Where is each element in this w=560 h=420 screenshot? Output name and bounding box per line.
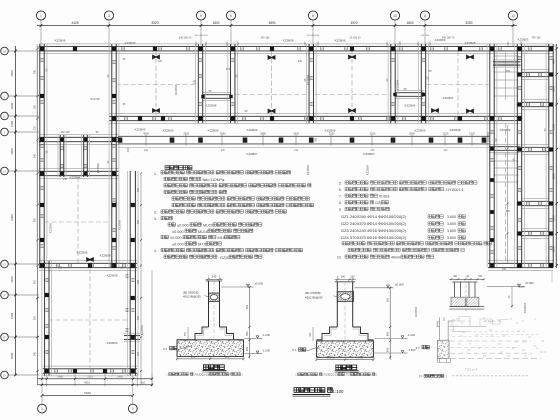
svg-text:GZ2 240X370 6Φ14 Φ6Φ100/200(2): GZ2 240X370 6Φ14 Φ6Φ100/200(2) <box>341 221 407 226</box>
svg-text:4Φ12 Φ6@200: 4Φ12 Φ6@200 <box>305 295 323 299</box>
svg-text:4500: 4500 <box>10 70 14 77</box>
svg-text:240: 240 <box>294 149 299 152</box>
detail C faint extension rows <box>452 325 486 327</box>
svg-text:4425: 4425 <box>71 21 78 25</box>
svg-text:E: E <box>3 335 5 339</box>
axis circle left 8 <box>1 333 9 341</box>
axis circle top 5 <box>308 11 317 20</box>
svg-text:KZ2B03: KZ2B03 <box>518 38 529 42</box>
lower-left total dim line <box>42 395 133 397</box>
detail D footing cells <box>451 297 465 306</box>
svg-text:300: 300 <box>126 147 130 152</box>
svg-text:5: 5 <box>200 14 202 18</box>
axis circle left 3 <box>1 112 9 120</box>
svg-text:240: 240 <box>144 149 149 152</box>
svg-text:8.: 8. <box>339 201 342 205</box>
svg-text:GZ20: GZ20 <box>220 256 230 260</box>
tie beam intermediate ticks <box>145 135 147 146</box>
svg-text:300: 300 <box>137 187 140 192</box>
axis circle top 8 <box>508 11 517 20</box>
detail A stepped footing outline <box>177 327 244 340</box>
svg-text:1460: 1460 <box>57 376 63 379</box>
detail D centerline <box>465 276 467 312</box>
svg-text:KZ2B08: KZ2B08 <box>55 39 66 43</box>
detail A caption <box>204 365 225 370</box>
svg-text:4200: 4200 <box>10 312 14 319</box>
GZ mark lower-left wall <box>86 257 94 262</box>
svg-text:875: 875 <box>225 355 230 359</box>
svg-text:2000: 2000 <box>10 102 14 109</box>
staircase treads lower flight <box>494 153 519 155</box>
detail B ring beam DQL section <box>337 292 353 302</box>
left wing partition wall A <box>39 134 118 136</box>
axis circle left 2 <box>1 92 9 100</box>
column blocks on left wing walls <box>40 94 44 98</box>
svg-text:KZ2B09: KZ2B09 <box>325 129 336 133</box>
right wing zero level line <box>487 286 525 288</box>
svg-text:40mm: 40mm <box>391 256 401 260</box>
axis circle top 2 <box>104 11 113 20</box>
svg-text:KZ2B01: KZ2B01 <box>443 96 454 100</box>
svg-text:): ) <box>376 373 377 377</box>
detail B zero level line and mark <box>355 287 389 289</box>
right cells partition y104 <box>522 99 550 101</box>
detail C lower steps <box>437 358 450 362</box>
svg-text:3.600: 3.600 <box>447 236 456 240</box>
detail B wall top break line <box>335 281 355 283</box>
svg-text:3.600: 3.600 <box>447 229 456 233</box>
centerline bay4 vertical <box>457 51 459 116</box>
svg-text:KZ2B06: KZ2B06 <box>49 223 53 234</box>
detail A elevation -1.500 <box>245 353 258 355</box>
svg-text:KZ2B09: KZ2B09 <box>247 128 258 132</box>
notes right item 9 cont line <box>342 242 491 245</box>
svg-text:K: K <box>3 114 5 118</box>
notes title: foundation design notes <box>165 166 192 170</box>
svg-text:500: 500 <box>506 210 511 213</box>
svg-text:±0.000: ±0.000 <box>172 230 184 234</box>
svg-text:F: F <box>4 293 6 297</box>
notes left item 1 line5 <box>172 197 310 200</box>
top dimension line <box>37 25 517 27</box>
north exterior strip footing wall <box>39 43 553 45</box>
axis circle left 6 <box>1 260 9 268</box>
svg-text:3.600: 3.600 <box>447 222 456 226</box>
svg-text:GZ4 370X370 6Φ16 Φ6Φ100/200(2): GZ4 370X370 6Φ16 Φ6Φ100/200(2) <box>341 235 407 240</box>
svg-text:1: 1 <box>41 407 43 411</box>
detail C faint upper outline <box>452 317 470 327</box>
top wing south wall <box>109 113 522 115</box>
svg-text:4 1: 4 1 <box>522 340 526 344</box>
detail B top dim <box>335 279 357 281</box>
axis circle left 1 <box>1 47 9 55</box>
detail B right dim line <box>389 288 391 360</box>
GZ mark bay2 bottom <box>268 108 276 113</box>
svg-text:KZ2B08: KZ2B08 <box>208 129 219 133</box>
svg-text:3560: 3560 <box>220 132 226 136</box>
svg-text:3260: 3260 <box>370 132 376 136</box>
svg-text:240 1800 240: 240 1800 240 <box>194 35 208 37</box>
svg-text:JY192Q1-150: JY192Q1-150 <box>194 372 211 376</box>
svg-text:240: 240 <box>444 149 449 152</box>
right wing west wall <box>486 44 488 268</box>
axis circle left 4 <box>1 128 9 136</box>
lower-left block south wall <box>43 365 137 367</box>
detail A top dim <box>206 278 223 280</box>
svg-text:): ) <box>242 372 243 376</box>
svg-text:JBL 240X180: JBL 240X180 <box>183 290 199 294</box>
svg-text:9300: 9300 <box>10 214 14 221</box>
svg-text:390: 390 <box>315 137 318 142</box>
svg-text:8: 8 <box>312 14 314 18</box>
svg-text:240: 240 <box>298 60 303 63</box>
svg-text:240: 240 <box>58 267 63 270</box>
svg-text:3.: 3. <box>154 217 157 221</box>
detail D wall lines <box>454 282 456 297</box>
lower-left block west wall <box>41 261 43 376</box>
svg-text:KZ2B09: KZ2B09 <box>163 129 174 133</box>
svg-text:±0.000: ±0.000 <box>525 281 534 285</box>
svg-text:240: 240 <box>341 275 346 278</box>
column blocks small partitions <box>201 95 204 98</box>
corridor partition <box>489 144 521 146</box>
svg-text:1:100: 1:100 <box>333 389 345 394</box>
top wing partition x393 <box>387 44 389 123</box>
corridor stair partition <box>493 59 521 61</box>
axis circle left 9 <box>1 371 9 379</box>
svg-text:H: H <box>3 169 5 173</box>
svg-text:500: 500 <box>506 70 511 73</box>
detail C wall and steps <box>437 318 452 341</box>
svg-text:2400: 2400 <box>293 132 299 136</box>
svg-text:240: 240 <box>63 178 68 181</box>
svg-text:4920: 4920 <box>350 21 357 25</box>
svg-text:-1.500: -1.500 <box>262 348 270 352</box>
svg-text:J1YG001-1.: J1YG001-1. <box>445 188 464 192</box>
svg-text:910: 910 <box>141 382 146 385</box>
lower-left dim extension lines <box>41 374 43 387</box>
svg-text:240 180 70: 240 180 70 <box>442 37 455 40</box>
detail A footing base with rubble fill <box>177 340 244 357</box>
left wing / lower block junction wall <box>39 260 137 262</box>
svg-text:278: 278 <box>194 79 197 84</box>
svg-text:(: ( <box>167 372 168 376</box>
svg-text:4310: 4310 <box>84 381 90 385</box>
axis circle left 7 <box>1 291 9 299</box>
east exterior wall <box>545 44 547 268</box>
centerline bay2 vertical <box>271 51 273 116</box>
svg-text:2401800240: 2401800240 <box>307 35 320 37</box>
svg-text:5940: 5940 <box>84 391 91 395</box>
detail A wall top break line <box>206 280 222 282</box>
svg-text:±0.000: ±0.000 <box>170 236 182 240</box>
svg-text:JY192Q1-150: JY192Q1-150 <box>323 373 340 377</box>
centerline lower-left room <box>48 319 131 321</box>
svg-text:390: 390 <box>137 315 140 320</box>
detail B footing base with rubble fill <box>317 341 374 357</box>
svg-text:+0 1a P — S: +0 1a P — S <box>483 319 500 323</box>
svg-text:340: 340 <box>33 153 36 158</box>
svg-text:120: 120 <box>158 60 163 63</box>
svg-text:1: 1 <box>40 14 42 18</box>
detail C extra faint rows <box>452 331 528 333</box>
svg-text:KZ2B08: KZ2B08 <box>100 254 111 258</box>
svg-text:800: 800 <box>245 331 249 336</box>
svg-text:KZ2B09: KZ2B09 <box>107 274 118 278</box>
svg-text:300: 300 <box>33 279 36 284</box>
right wing small dim drop <box>511 287 513 309</box>
svg-text:KZ2B04: KZ2B04 <box>396 80 400 91</box>
GZ mark bay4a bottom <box>431 108 439 113</box>
svg-text:1.: 1. <box>154 172 157 176</box>
right wing south wall <box>488 260 553 262</box>
svg-text:180: 180 <box>33 104 36 109</box>
detail A right dim line <box>249 287 251 359</box>
bottom axis circle 1 <box>38 404 47 413</box>
detail A zero level line and mark <box>221 286 248 288</box>
svg-text:KZ2B04: KZ2B04 <box>414 307 418 318</box>
svg-text:130 145: 130 145 <box>60 131 70 134</box>
svg-text:KZ2B07: KZ2B07 <box>246 152 257 156</box>
svg-text:KZ2B04: KZ2B04 <box>174 85 178 96</box>
top wing partition x311 <box>305 44 307 123</box>
left dimension line inner <box>37 46 39 385</box>
left wing cell wall x62 <box>57 135 59 177</box>
svg-text:340: 340 <box>137 351 140 356</box>
svg-text:4890: 4890 <box>268 21 275 25</box>
svg-text:3100: 3100 <box>10 276 14 283</box>
svg-text:KZ2B06: KZ2B06 <box>306 165 310 176</box>
svg-text:M10: M10 <box>218 236 225 240</box>
svg-text:KZ2B08: KZ2B08 <box>283 39 294 43</box>
GZ mark bay3 bottom <box>348 108 356 113</box>
detail B left step dim <box>312 327 314 341</box>
svg-text:510 90: 510 90 <box>90 97 100 101</box>
notes right item 9 cont line2 <box>348 248 464 251</box>
svg-text:KZ2B08: KZ2B08 <box>206 104 217 108</box>
detail A left step dim <box>187 327 189 340</box>
right cells partition y233 <box>522 228 550 230</box>
right cells partition y149 <box>522 144 550 146</box>
svg-text:5.: 5. <box>339 181 342 185</box>
svg-text:KZ2B06: KZ2B06 <box>70 176 81 180</box>
svg-text:±0.000: ±0.000 <box>177 224 189 228</box>
svg-text:3:7: 3:7 <box>292 348 297 352</box>
centerline bay3 vertical <box>351 51 353 116</box>
east side vertical dim line of left wing <box>140 175 142 385</box>
svg-text:2320: 2320 <box>443 132 449 136</box>
svg-text:±0.000: ±0.000 <box>255 282 264 286</box>
svg-text:4.: 4. <box>154 249 157 253</box>
detail B elevation -1.200 <box>375 337 403 339</box>
svg-text:3.600: 3.600 <box>447 215 456 219</box>
svg-text:2250: 2250 <box>183 132 189 136</box>
notes left item 4 line2 <box>164 255 217 258</box>
svg-text:11: 11 <box>423 14 427 18</box>
svg-text:KZ2B08: KZ2B08 <box>450 128 461 132</box>
svg-text:340: 340 <box>33 351 36 356</box>
svg-text:(: ( <box>296 373 297 377</box>
svg-text:3: 3 <box>108 14 110 18</box>
svg-text:KZ2B06: KZ2B06 <box>118 220 122 231</box>
detail D top dim <box>450 278 485 280</box>
pier tick pairs on top wall <box>121 47 123 50</box>
extra axis tick clusters below top dim <box>195 42 197 46</box>
svg-text:370: 370 <box>345 373 350 377</box>
notes left item 3 line3 <box>161 235 168 238</box>
detail A elevation -1.200 <box>245 337 258 339</box>
svg-text:KZ2B07: KZ2B07 <box>363 152 374 156</box>
svg-text:240: 240 <box>212 274 217 278</box>
left wing east wall <box>108 44 110 268</box>
lower-left block inner partition <box>124 332 140 334</box>
svg-text:875+65: 875+65 <box>327 357 336 360</box>
detail B caption <box>336 365 357 370</box>
svg-text:1800: 1800 <box>212 21 219 25</box>
svg-text:fak=110KPa.: fak=110KPa. <box>203 177 226 182</box>
svg-text:800: 800 <box>385 331 389 336</box>
svg-text:500: 500 <box>385 297 389 302</box>
svg-text:1460: 1460 <box>117 376 123 379</box>
right wing elevation mark <box>518 284 525 287</box>
detail A bottom dim <box>177 358 244 360</box>
svg-text:KZ2B03: KZ2B03 <box>500 128 511 132</box>
axis circle top 1 <box>36 11 45 20</box>
svg-text:450: 450 <box>385 347 389 352</box>
lower-left dim line 1 <box>38 378 153 380</box>
GZ mark bay4b bottom <box>466 108 474 113</box>
svg-text:740 180: 740 180 <box>531 37 541 40</box>
svg-text:240 1800: 240 1800 <box>420 35 430 37</box>
svg-text:-1.200: -1.200 <box>407 333 415 337</box>
small room partition (bay 395-423) <box>395 90 424 92</box>
svg-text:240: 240 <box>221 149 226 152</box>
axis circle top 6 <box>390 11 399 20</box>
svg-text:GZ3 240X240 4Φ16 Φ6Φ100/200(2): GZ3 240X240 4Φ16 Φ6Φ100/200(2) <box>341 228 407 233</box>
GZ mark bay4 top <box>466 54 474 59</box>
svg-text:3800: 3800 <box>10 352 14 359</box>
right cells partition y74 <box>522 69 550 71</box>
GZ mark bay1 top <box>152 54 160 59</box>
svg-text:930: 930 <box>33 217 36 222</box>
pier tick pairs on verticals <box>41 58 44 60</box>
small room partition (bay 203-231) <box>203 92 231 94</box>
svg-text:KZ2B04: KZ2B04 <box>523 303 527 314</box>
svg-text:930: 930 <box>137 219 140 224</box>
svg-text:300: 300 <box>137 279 140 284</box>
svg-text:KZ2B08: KZ2B08 <box>465 41 476 45</box>
svg-text:KZ2B06: KZ2B06 <box>107 341 118 345</box>
svg-text:20 180 20: 20 180 20 <box>349 37 361 40</box>
svg-text:KZ2B01: KZ2B01 <box>486 132 490 143</box>
centerline left wing room <box>44 221 112 223</box>
column blocks right wing <box>517 72 521 76</box>
right wing corridor east wall <box>514 44 516 268</box>
svg-text:370: 370 <box>226 68 231 71</box>
lower-left dim line 2 <box>38 384 153 386</box>
svg-text:MU15: MU15 <box>198 230 208 234</box>
detail D base lines <box>449 306 484 308</box>
notes left item 1 line3 <box>164 184 311 187</box>
notes left item 1 line4 <box>164 190 227 193</box>
svg-text:KZ2B04: KZ2B04 <box>140 325 144 336</box>
svg-text:3:7: 3:7 <box>416 346 421 350</box>
svg-text:2: 2 <box>132 407 134 411</box>
detail B stepped footing outline <box>317 327 374 340</box>
pier tick pairs on top wing south wall <box>124 117 126 120</box>
svg-text:240: 240 <box>33 69 36 74</box>
svg-text:875-65: 875-65 <box>356 357 364 360</box>
pier tick pairs lower walls <box>56 264 58 267</box>
svg-text:6.: 6. <box>339 188 342 192</box>
svg-text:±0.000: ±0.000 <box>172 243 184 247</box>
svg-text:KZ2B09: KZ2B09 <box>135 128 146 132</box>
svg-text:390: 390 <box>33 315 36 320</box>
detail B bottom dim <box>317 359 374 361</box>
column blocks lower-left block <box>45 293 49 297</box>
svg-text:240: 240 <box>502 268 507 271</box>
detail C footing base <box>437 340 449 358</box>
axis circle top 7 <box>420 11 429 20</box>
svg-text:KZ2B08: KZ2B08 <box>335 39 346 43</box>
svg-text:KZ2B08: KZ2B08 <box>77 251 88 255</box>
svg-text:1800: 1800 <box>406 21 413 25</box>
svg-text:JBL 370X180: JBL 370X180 <box>305 291 321 295</box>
svg-text:KZ2B09: KZ2B09 <box>415 129 426 133</box>
svg-text:M7.5: M7.5 <box>198 243 206 247</box>
svg-text:3:7: 3:7 <box>163 347 168 351</box>
svg-text:KZ2B09: KZ2B09 <box>125 41 136 45</box>
notes left item 1 line6 <box>172 203 314 206</box>
svg-text:±0.000: ±0.000 <box>395 282 404 286</box>
notes left item 3 line1 <box>168 223 175 226</box>
notes left item 1 line2 <box>164 177 201 180</box>
svg-text:240 180: 240 180 <box>260 37 270 40</box>
top wing partition x232 <box>227 44 229 123</box>
svg-text:7 8 1 e: 4: 7 8 1 e: 4 <box>465 367 478 371</box>
svg-text:2.: 2. <box>154 211 157 215</box>
detail B wall lines <box>336 282 338 327</box>
svg-text:5280: 5280 <box>465 21 472 25</box>
svg-text:3900: 3900 <box>10 148 14 155</box>
svg-text:GZ1 240X240 4Φ14 Φ6Φ100/200(2): GZ1 240X240 4Φ14 Φ6Φ100/200(2) <box>341 214 407 219</box>
stair flight arrow line <box>505 52 507 100</box>
detail B elevation -1.500 <box>375 352 403 354</box>
svg-text:1600: 1600 <box>10 120 14 127</box>
detail A wall lines <box>208 281 210 327</box>
left wing east strip wall (wide, runs to bottom) <box>127 171 129 376</box>
centerline corridor <box>505 123 507 263</box>
right cells partition y203 <box>522 198 550 200</box>
svg-text:120: 120 <box>33 125 36 130</box>
GZ mark bay3 top <box>348 54 356 59</box>
left wing partition wall B <box>39 168 118 170</box>
foundation tie beam JL band <box>118 135 490 137</box>
svg-text:240 180 20: 240 180 20 <box>179 37 192 40</box>
svg-text:1510: 1510 <box>87 376 93 379</box>
corridor inner dim line <box>507 125 509 263</box>
svg-text:5520: 5520 <box>151 21 158 25</box>
drawing title block <box>294 388 332 393</box>
staircase treads upper flight <box>494 55 519 57</box>
column blocks on north wall <box>40 47 44 51</box>
detail A ring beam DQL section <box>209 293 220 302</box>
left dimension line outer <box>15 46 17 375</box>
svg-text:10.: 10. <box>337 256 342 260</box>
svg-text:875: 875 <box>191 355 196 359</box>
svg-text:-1.200: -1.200 <box>262 333 270 337</box>
GZ mark bay2 top <box>268 55 276 60</box>
